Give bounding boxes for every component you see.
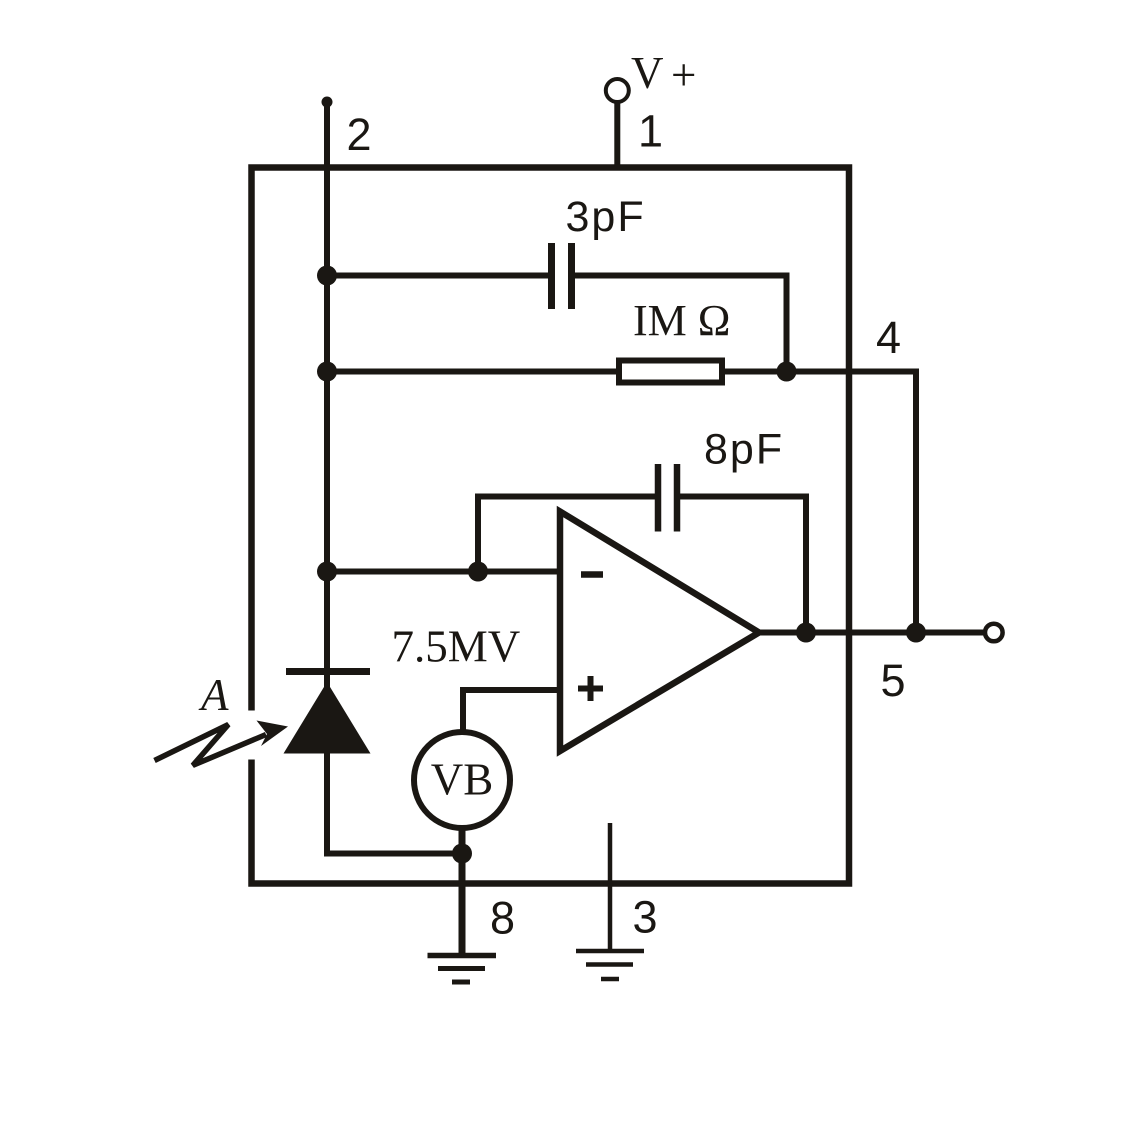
pin 2 rail top round cap [322, 97, 333, 108]
junction node VB/anode [452, 844, 472, 864]
capacitor 3pF plate right [568, 243, 575, 309]
wire 3pF right with corner down [575, 276, 787, 372]
svg-text:8: 8 [490, 893, 515, 944]
svg-text:7.5MV: 7.5MV [392, 622, 521, 672]
V+ terminal circle [606, 79, 629, 102]
output wire [759, 630, 985, 636]
junction node on rail at 3pF [317, 266, 337, 286]
VB bottom wire to ground 8 [459, 828, 466, 953]
capacitor 8pF plate left [655, 464, 662, 532]
wire 8pF right with corner down [680, 497, 806, 633]
capacitor 3pF plate left [548, 243, 555, 309]
junction node on rail at 1M [317, 362, 337, 382]
IC boundary box [252, 168, 850, 884]
svg-text:3pF: 3pF [566, 193, 646, 241]
wire V+ to box top [614, 102, 620, 168]
wire 1M left [327, 369, 616, 375]
junction node 8pF tap [468, 562, 488, 582]
noninverting input wire [463, 690, 560, 732]
wire diode anode down and right to node [327, 754, 462, 854]
junction node output/pin4 [906, 623, 926, 643]
light arrow head [257, 721, 289, 747]
svg-text:A: A [198, 670, 229, 720]
svg-text:5: 5 [881, 655, 906, 706]
junction node on rail at inverting input [317, 562, 337, 582]
svg-text:+: + [671, 50, 696, 100]
junction node 3pF/1M [777, 362, 797, 382]
svg-text:2: 2 [347, 109, 372, 160]
op-amp plus sign [578, 686, 603, 692]
resistor 1M body [619, 361, 722, 383]
light arrow zigzag [155, 725, 267, 766]
output terminal circle [985, 624, 1003, 642]
svg-text:IM Ω: IM Ω [633, 296, 730, 345]
ground pin 3 [576, 949, 644, 954]
svg-text:3: 3 [633, 892, 658, 943]
junction node output/8pF [796, 623, 816, 643]
pin 3 stub wire [608, 823, 613, 950]
svg-text:V: V [631, 48, 664, 98]
label V+ [631, 48, 696, 100]
voltage source VB [414, 732, 510, 828]
photodiode D1 cathode bar [286, 668, 370, 675]
inverting input wire [327, 569, 560, 575]
pin 2 rail (vertical wire) [324, 101, 330, 690]
ground pin 8 [428, 953, 497, 959]
wire 8pF left riser [478, 497, 655, 572]
capacitor 8pF plate right [674, 464, 681, 532]
wire 1M right to pin4 corner [725, 372, 916, 633]
svg-text:8pF: 8pF [704, 426, 784, 474]
wire 3pF left [327, 273, 548, 279]
op-amp minus sign [581, 571, 603, 578]
photodiode D1 triangle [284, 682, 371, 754]
op-amp U1 [560, 512, 759, 752]
svg-text:4: 4 [876, 312, 901, 363]
svg-text:1: 1 [638, 106, 663, 157]
svg-text:VB: VB [431, 755, 494, 805]
